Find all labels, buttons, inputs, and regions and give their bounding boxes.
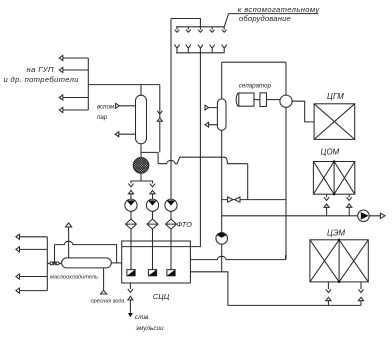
svg-text:вспом.: вспом. [97,104,116,111]
svg-text:на ГУП: на ГУП [27,65,54,74]
oil consumer arrow 4 [16,288,47,293]
svg-text:ЦЭМ: ЦЭМ [327,229,345,238]
SECTION-A top manifold [171,14,318,247]
SECTION-J scc box [122,241,191,317]
TsOM drain stem 2 with flow arrows [347,194,352,200]
wire: drop to valve line [247,164,249,200]
wire: outlet header (row 1 collector) [176,26,224,28]
pump P3 [165,199,177,211]
filter F1 [126,219,137,229]
vent pipe with arrow [68,227,70,258]
TsEM drain stem 2 with flow arrows [358,282,363,293]
vessel: small separator drum [217,99,226,130]
wire: loop top line [222,61,286,63]
wire: oil bus vertical [46,237,48,291]
svg-text:эмульсии: эмульсии [136,325,164,332]
flow arrows branch 2 [150,184,155,187]
wire: steam supply vertical to pump P3 [170,19,172,200]
shaft [254,99,260,101]
wire: feed to TsGM [292,101,314,122]
svg-text:пар: пар [97,114,108,121]
flow arrows on downcomer [157,111,162,114]
SECTION-K tank [16,223,122,294]
svg-text:маслоохладитель: маслоохладитель [50,275,98,281]
svg-text:пресная вода: пресная вода [91,298,125,304]
wire: corner of separator discharge [285,255,287,260]
return branch arrows row 2 [174,45,226,53]
wire: emulsion return with jump over pump line [190,256,285,259]
wire: feed header to column [88,84,160,86]
mixing valve rings and cross [50,262,53,265]
pump P2 [146,199,158,211]
wires pumps to filters [131,211,171,219]
wire: circulation downcomer [159,85,161,153]
TsEM drain stem 1 with flow arrows [326,282,331,293]
SECTION-C evaporator column [115,95,177,269]
svg-text:ЦОМ: ЦОМ [321,147,340,156]
filter F2 [147,219,158,229]
coupling [260,93,267,107]
valve: check valve pair [228,197,233,202]
fresh water stub [103,268,105,290]
wire: pump header branches 1-2 [131,181,153,183]
SECTION-E routing lines [158,157,385,305]
wire: tank outlet to SCC [111,262,121,264]
svg-text:ЦГМ: ЦГМ [327,92,344,101]
wire: right drop of loop [285,62,287,95]
consumer outlet arrow 2 [59,67,88,72]
wire: column bottom stem [140,144,142,158]
SECTION-B left consumers [59,55,162,152]
consumer outlet arrow 1 [59,55,88,60]
wire: consumer bus vertical [87,58,89,110]
emulsion drain arrow [128,313,133,317]
wire: column outlet run with jump over steam vertical [158,157,248,164]
wire: return header (row 2 collector) [176,52,225,54]
filter F3 (FTO) [166,219,177,229]
SECTION-I right boxes [310,104,368,306]
wire: inner distribution line [122,246,191,248]
steam inlet arrow + wire [116,103,136,108]
oil consumer arrow 1 [16,234,47,239]
circulation pump P5 [216,233,228,245]
drain stem with flow arrows [128,283,133,292]
consumer outlet arrow 4 [59,107,88,112]
svg-text:ФТО: ФТО [177,220,193,229]
wire: circulation return branch [141,152,158,163]
svg-text:оборудование: оборудование [239,14,291,23]
flow arrows branch 1 [128,184,133,187]
outlet branch arrows row 1 [175,27,227,32]
svg-text:слив: слив [135,314,149,321]
consumer outlet arrow 3 [59,95,88,100]
machine M1 in SCC [127,270,135,276]
machine M3 in SCC [167,270,175,276]
svg-text:к вспомогательному: к вспомогательному [238,5,321,14]
machine TsOM box [313,162,354,195]
wire: SCC outlet to TsEM collector [190,272,361,306]
wire: central condensate vertical down into SCC box [190,53,200,247]
inlet arrow to drum [205,105,217,110]
oil consumer arrow 2 [16,247,47,252]
wire: pump P5 discharge down [221,244,223,272]
separator pump circle [280,95,292,107]
mill: crosshatched grinder circle [133,158,148,173]
leader line to label [224,14,318,27]
wire: manifold top corner line [171,19,200,27]
machine M2 in SCC [148,270,156,276]
tank: oil cooler [62,258,112,268]
machine TsEM box [310,240,368,282]
motor of separator [236,93,241,106]
pump P1 [125,199,137,211]
SECTION-D separator loop [205,62,314,259]
outlet wire + arrow from drum [205,122,217,127]
machine TsGM box [314,104,355,140]
condensate outlet wire + arrow [115,132,135,137]
wires filters into SCC box [131,229,171,269]
wire: separator discharge vertical [285,107,287,259]
TsOM drain stem 1 with flow arrows [324,194,329,200]
svg-text:и др. потребители: и др. потребители [4,75,80,84]
wire: stub down to column top [140,85,142,96]
vessel: evaporator column [136,95,147,144]
pump P4 output pump [358,210,370,222]
box: SCC unit [122,241,191,283]
wire: bus to mixing valve [47,262,50,264]
wire: valve line [222,199,286,201]
wire: drum bottom vertical down to pump [221,130,223,232]
wire: mill outlet stem [140,173,142,181]
svg-text:сепаратор: сепаратор [239,82,272,89]
oil consumer arrow 3 [16,274,47,279]
outlet wire + arrow [369,213,385,218]
shaft to separator pump [267,99,280,101]
wire: mains collector to right pump [222,215,358,217]
wire: bypass over vent with jump [55,241,117,263]
wire: left drop to small vessel [221,62,223,99]
svg-text:СЦЦ: СЦЦ [153,292,170,301]
